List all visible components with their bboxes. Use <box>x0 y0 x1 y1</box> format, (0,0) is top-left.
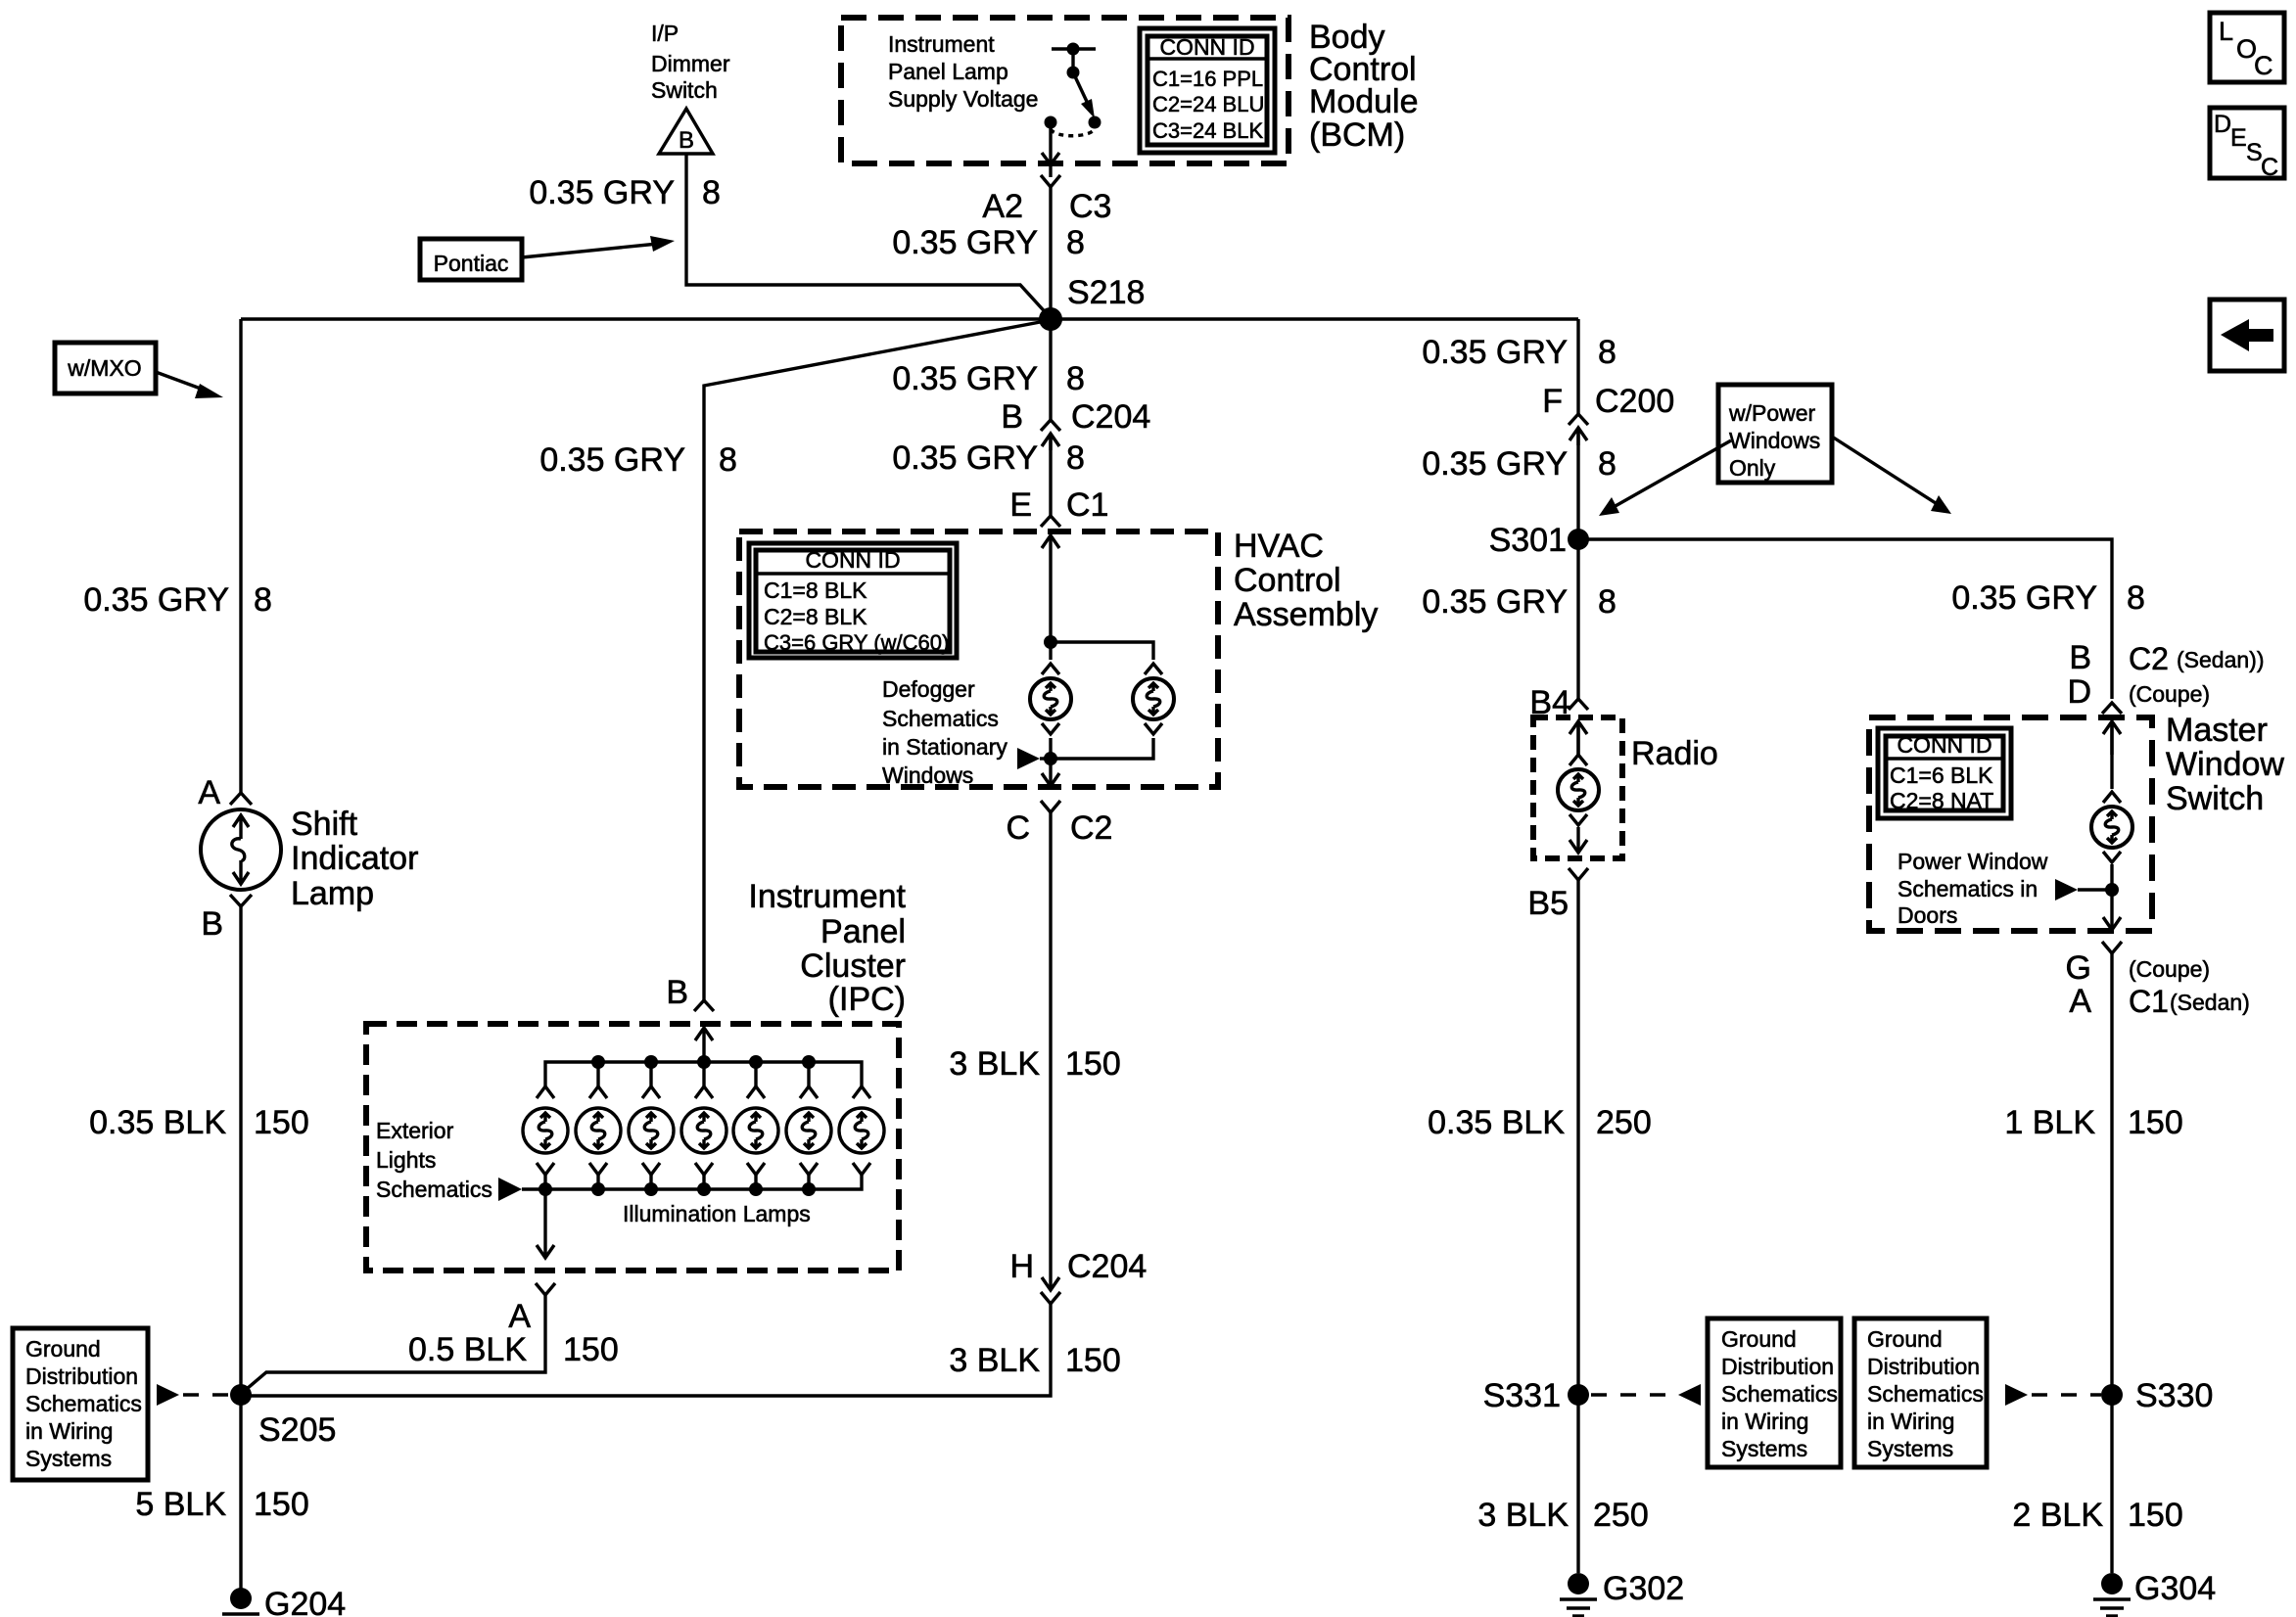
svg-text:in Wiring: in Wiring <box>1867 1409 1954 1434</box>
svg-text:Exterior: Exterior <box>376 1118 454 1143</box>
svg-text:C200: C200 <box>1595 383 1674 420</box>
svg-text:CONN ID: CONN ID <box>805 547 900 573</box>
svg-text:Windows: Windows <box>882 762 973 788</box>
svg-text:250: 250 <box>1596 1104 1652 1141</box>
svg-text:0.35 GRY: 0.35 GRY <box>539 441 685 479</box>
svg-text:A: A <box>2069 983 2091 1020</box>
svg-text:D: D <box>2214 111 2231 138</box>
svg-text:Distribution: Distribution <box>25 1363 138 1389</box>
svg-text:8: 8 <box>1066 439 1085 477</box>
svg-text:CONN ID: CONN ID <box>1159 34 1254 60</box>
svg-text:Assembly: Assembly <box>1234 596 1378 633</box>
svg-text:E: E <box>2230 124 2247 152</box>
svg-text:0.35 GRY: 0.35 GRY <box>1422 445 1568 483</box>
svg-text:Lights: Lights <box>376 1147 436 1173</box>
svg-text:Radio: Radio <box>1631 735 1718 772</box>
svg-text:Distribution: Distribution <box>1721 1354 1834 1379</box>
svg-text:0.35 BLK: 0.35 BLK <box>1428 1104 1565 1141</box>
svg-text:Schematics: Schematics <box>882 706 999 731</box>
svg-text:(Sedan)): (Sedan)) <box>2177 647 2264 672</box>
svg-text:(IPC): (IPC) <box>828 981 906 1018</box>
svg-text:HVAC: HVAC <box>1234 528 1324 565</box>
svg-text:Switch: Switch <box>2166 780 2264 817</box>
svg-text:S331: S331 <box>1483 1377 1561 1414</box>
svg-text:Distribution: Distribution <box>1867 1354 1980 1379</box>
svg-text:B: B <box>679 127 694 154</box>
svg-text:S218: S218 <box>1067 274 1145 311</box>
svg-text:C1: C1 <box>1066 486 1108 524</box>
svg-text:A: A <box>508 1298 531 1335</box>
svg-text:8: 8 <box>719 441 737 479</box>
svg-text:150: 150 <box>563 1331 619 1368</box>
svg-text:Ground: Ground <box>1867 1326 1943 1352</box>
svg-text:150: 150 <box>254 1104 309 1141</box>
svg-text:in Stationary: in Stationary <box>882 734 1007 760</box>
svg-text:C2=8 NAT: C2=8 NAT <box>1890 788 1993 813</box>
svg-text:150: 150 <box>254 1486 309 1523</box>
svg-text:8: 8 <box>1598 583 1617 621</box>
svg-text:E: E <box>1009 486 1032 524</box>
svg-text:3 BLK: 3 BLK <box>1477 1497 1569 1534</box>
svg-text:150: 150 <box>1065 1342 1121 1379</box>
svg-text:Windows: Windows <box>1729 428 1820 453</box>
svg-text:C1=8 BLK: C1=8 BLK <box>764 577 867 603</box>
svg-text:0.35 GRY: 0.35 GRY <box>892 439 1038 477</box>
svg-text:Lamp: Lamp <box>291 875 374 912</box>
svg-text:C1: C1 <box>2129 984 2169 1019</box>
svg-text:Control: Control <box>1234 562 1341 599</box>
svg-text:2 BLK: 2 BLK <box>2012 1497 2103 1534</box>
svg-text:0.35 GRY: 0.35 GRY <box>1422 583 1568 621</box>
svg-text:Schematics: Schematics <box>1721 1381 1838 1407</box>
svg-text:C: C <box>1006 809 1030 847</box>
svg-text:w/MXO: w/MXO <box>67 355 141 381</box>
svg-text:Systems: Systems <box>1867 1436 1953 1461</box>
svg-text:150: 150 <box>2128 1104 2183 1141</box>
svg-text:B: B <box>666 974 688 1011</box>
svg-text:C204: C204 <box>1067 1248 1147 1285</box>
svg-text:0.35 GRY: 0.35 GRY <box>1422 334 1568 371</box>
svg-text:0.35 BLK: 0.35 BLK <box>89 1104 226 1141</box>
svg-text:Schematics: Schematics <box>25 1391 142 1416</box>
svg-text:D: D <box>2067 673 2091 711</box>
svg-text:CONN ID: CONN ID <box>1897 732 1991 758</box>
svg-text:Module: Module <box>1309 83 1419 120</box>
svg-text:w/Power: w/Power <box>1728 400 1816 426</box>
svg-text:Doors: Doors <box>1898 902 1957 928</box>
svg-text:8: 8 <box>2127 579 2145 617</box>
svg-text:0.35 GRY: 0.35 GRY <box>1951 579 2097 617</box>
svg-text:H: H <box>1009 1248 1034 1285</box>
svg-text:B: B <box>1001 398 1023 436</box>
svg-text:Window: Window <box>2166 746 2284 783</box>
svg-text:Supply Voltage: Supply Voltage <box>888 86 1038 112</box>
svg-text:C3=24 BLK: C3=24 BLK <box>1152 118 1263 143</box>
svg-text:A: A <box>198 774 220 811</box>
svg-text:0.35 GRY: 0.35 GRY <box>892 224 1038 261</box>
svg-text:250: 250 <box>1593 1497 1649 1534</box>
svg-text:(BCM): (BCM) <box>1309 116 1405 154</box>
svg-text:Illumination Lamps: Illumination Lamps <box>623 1201 811 1226</box>
svg-text:Switch: Switch <box>651 77 718 103</box>
svg-text:C2: C2 <box>2129 641 2169 676</box>
svg-text:G: G <box>2066 949 2091 987</box>
svg-text:S205: S205 <box>258 1411 336 1449</box>
svg-text:(Coupe): (Coupe) <box>2129 681 2210 707</box>
svg-text:150: 150 <box>2128 1497 2183 1534</box>
svg-text:Ground: Ground <box>1721 1326 1797 1352</box>
svg-text:C3: C3 <box>1069 188 1111 225</box>
svg-text:Master: Master <box>2166 712 2268 749</box>
svg-text:Cluster: Cluster <box>800 947 906 985</box>
svg-text:C204: C204 <box>1071 398 1150 436</box>
svg-text:C2=24 BLU: C2=24 BLU <box>1152 92 1264 116</box>
svg-text:G204: G204 <box>264 1586 346 1617</box>
svg-text:Schematics: Schematics <box>376 1177 492 1202</box>
svg-text:(Coupe): (Coupe) <box>2129 956 2210 982</box>
svg-text:C2: C2 <box>1070 809 1112 847</box>
svg-text:A2: A2 <box>982 188 1023 225</box>
svg-text:Instrument: Instrument <box>748 878 906 915</box>
svg-text:B5: B5 <box>1527 885 1569 922</box>
svg-text:Power Window: Power Window <box>1898 849 2048 874</box>
svg-text:in Wiring: in Wiring <box>1721 1409 1808 1434</box>
svg-text:8: 8 <box>1066 360 1085 397</box>
svg-text:B4: B4 <box>1529 684 1570 721</box>
svg-text:S330: S330 <box>2135 1377 2213 1414</box>
svg-text:Only: Only <box>1729 455 1776 481</box>
svg-text:C1=6 BLK: C1=6 BLK <box>1890 762 1993 788</box>
svg-text:in Wiring: in Wiring <box>25 1418 113 1444</box>
svg-text:S301: S301 <box>1489 522 1567 559</box>
svg-text:Panel Lamp: Panel Lamp <box>888 59 1008 84</box>
svg-text:Defogger: Defogger <box>882 676 975 702</box>
svg-text:Pontiac: Pontiac <box>434 251 509 276</box>
svg-text:Instrument: Instrument <box>888 31 995 57</box>
svg-text:5 BLK: 5 BLK <box>135 1486 226 1523</box>
svg-text:L: L <box>2219 17 2233 46</box>
svg-text:8: 8 <box>1066 224 1085 261</box>
svg-text:Systems: Systems <box>1721 1436 1807 1461</box>
svg-text:0.35 GRY: 0.35 GRY <box>892 360 1038 397</box>
svg-text:Shift: Shift <box>291 806 358 843</box>
svg-text:F: F <box>1542 383 1563 420</box>
svg-text:3 BLK: 3 BLK <box>949 1045 1040 1083</box>
svg-text:8: 8 <box>702 174 721 211</box>
svg-text:0.35 GRY: 0.35 GRY <box>529 174 675 211</box>
svg-text:C: C <box>2261 154 2278 181</box>
svg-text:Systems: Systems <box>25 1446 112 1471</box>
svg-text:8: 8 <box>254 581 272 619</box>
svg-text:Ground: Ground <box>25 1336 101 1362</box>
svg-text:Indicator: Indicator <box>291 840 418 877</box>
svg-text:Schematics in: Schematics in <box>1898 876 2038 901</box>
svg-text:C1=16 PPL: C1=16 PPL <box>1152 67 1263 91</box>
svg-text:Dimmer: Dimmer <box>651 51 730 76</box>
svg-text:3 BLK: 3 BLK <box>949 1342 1040 1379</box>
svg-text:Schematics: Schematics <box>1867 1381 1984 1407</box>
svg-text:G302: G302 <box>1603 1570 1684 1607</box>
svg-text:I/P: I/P <box>651 21 679 46</box>
svg-text:1 BLK: 1 BLK <box>2004 1104 2095 1141</box>
svg-text:B: B <box>201 905 223 943</box>
svg-text:8: 8 <box>1598 334 1617 371</box>
svg-text:0.35 GRY: 0.35 GRY <box>83 581 229 619</box>
svg-text:(Sedan): (Sedan) <box>2170 990 2250 1015</box>
svg-text:150: 150 <box>1065 1045 1121 1083</box>
svg-text:8: 8 <box>1598 445 1617 483</box>
svg-text:C: C <box>2254 51 2273 80</box>
svg-text:C2=8 BLK: C2=8 BLK <box>764 604 867 629</box>
svg-text:0.5 BLK: 0.5 BLK <box>408 1331 527 1368</box>
svg-text:Panel: Panel <box>820 913 906 950</box>
svg-text:G304: G304 <box>2134 1570 2216 1607</box>
svg-text:C3=6 GRY (w/C60): C3=6 GRY (w/C60) <box>764 630 949 655</box>
svg-text:B: B <box>2069 639 2091 676</box>
